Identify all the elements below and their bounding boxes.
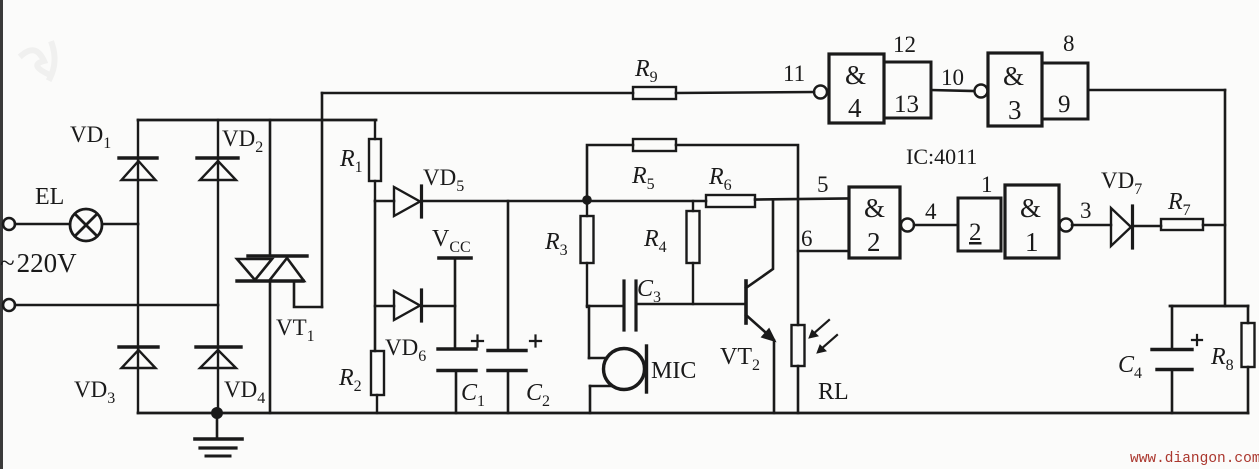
gate U1 (&1) xyxy=(1005,185,1073,258)
diode VD2 xyxy=(197,120,238,305)
resistor R5 xyxy=(633,139,676,151)
wire R5 branch left xyxy=(587,145,633,200)
pin box 13 xyxy=(884,62,931,118)
diode VD6 xyxy=(394,290,422,321)
svg-text:www.diangon.com: www.diangon.com xyxy=(1130,451,1259,467)
wire R6 to gate2 pin5 xyxy=(755,199,849,200)
svg-text:8: 8 xyxy=(1063,31,1075,56)
wire VD6 to Vcc rail xyxy=(422,305,455,308)
pin box 2 xyxy=(958,198,1001,251)
terminal lower xyxy=(3,299,15,311)
wire RL to bottom rail xyxy=(797,366,800,413)
node junction R3/R5 xyxy=(582,195,592,205)
wire pin 6 xyxy=(798,250,849,253)
resistor R3 xyxy=(581,201,594,307)
wire VD7 to R7 xyxy=(1134,225,1161,228)
ground xyxy=(195,413,242,456)
svg-text:10: 10 xyxy=(941,65,964,90)
gate U3 (&3) xyxy=(975,53,1043,126)
svg-text:13: 13 xyxy=(894,91,919,118)
diode VD4 xyxy=(196,305,241,413)
wire terminal to lamp xyxy=(15,223,70,226)
svg-text:&: & xyxy=(1003,61,1024,91)
wire pin 3 xyxy=(1072,224,1111,227)
svg-text:1: 1 xyxy=(981,172,993,197)
resistor R1 xyxy=(369,120,381,201)
svg-text:1: 1 xyxy=(1025,227,1039,257)
svg-text:2: 2 xyxy=(867,227,881,257)
svg-text:RL: RL xyxy=(818,379,849,405)
svg-text:2: 2 xyxy=(969,219,982,246)
wire R5 branch right xyxy=(676,145,798,325)
left vertical R1-VD6-R2 chain xyxy=(374,201,377,351)
wire lower terminal to bridge node B xyxy=(15,304,218,307)
capacitor C3 xyxy=(587,281,746,330)
capacitor C4 xyxy=(1152,306,1202,413)
wire R7 to right riser xyxy=(1203,224,1225,227)
diode VD7 xyxy=(1111,206,1133,248)
resistor R7 xyxy=(1161,219,1203,230)
diode VD1 xyxy=(119,120,157,224)
diode VD5 xyxy=(394,186,422,217)
wire top line gate riser to R9 xyxy=(322,92,633,95)
triac VT1 xyxy=(237,120,322,413)
bottom rail xyxy=(138,412,1248,415)
resistor R2 xyxy=(371,351,384,413)
svg-text:MIC: MIC xyxy=(651,358,696,384)
svg-text:4: 4 xyxy=(848,93,862,123)
wire R9 to gate4 pin11 xyxy=(676,92,814,93)
svg-text:&: & xyxy=(864,193,885,223)
diode VD3 xyxy=(119,224,158,413)
photoresistor RL xyxy=(792,320,838,366)
top DC rail xyxy=(138,119,376,122)
svg-text:9: 9 xyxy=(1058,91,1071,118)
gate U4 (&4) xyxy=(814,54,884,123)
svg-text:&: & xyxy=(845,60,866,90)
svg-text:11: 11 xyxy=(783,61,805,86)
wire lamp to bridge node A xyxy=(102,223,138,226)
wire main Vdd line VD5 to R6 xyxy=(423,200,706,203)
resistor R4 xyxy=(687,201,700,304)
capacitor C1 xyxy=(438,336,483,414)
svg-text:3: 3 xyxy=(1080,198,1092,223)
wire pin 4 xyxy=(914,224,958,227)
wire to VD5 xyxy=(375,200,394,203)
svg-text:5: 5 xyxy=(817,172,829,197)
pin box 9 xyxy=(1042,63,1088,119)
svg-text:~220V: ~220V xyxy=(0,248,77,278)
transistor VT2 xyxy=(746,201,775,413)
gate U2 (&2) xyxy=(849,187,914,258)
svg-text:12: 12 xyxy=(893,32,916,57)
wire triac gate riser xyxy=(321,93,324,307)
wire right riser xyxy=(1224,90,1227,306)
wire VD6 stub xyxy=(375,305,394,308)
svg-text:3: 3 xyxy=(1008,95,1022,125)
Vcc symbol xyxy=(439,258,471,347)
wire gate3 output to right xyxy=(1088,89,1225,92)
svg-text:4: 4 xyxy=(925,199,937,224)
svg-text:EL: EL xyxy=(35,184,64,210)
resistor R8 xyxy=(1242,306,1255,413)
wire RC network top xyxy=(1170,305,1248,308)
wire pin 10 xyxy=(931,90,974,91)
terminal upper xyxy=(3,218,15,230)
ground junction xyxy=(211,407,223,419)
svg-text:6: 6 xyxy=(801,226,813,251)
svg-text:&: & xyxy=(1020,193,1041,223)
lamp EL xyxy=(70,209,102,241)
capacitor C2 xyxy=(488,201,541,413)
resistor R9 xyxy=(633,87,676,99)
microphone MIC xyxy=(589,306,647,413)
resistor R6 xyxy=(706,195,755,207)
svg-text:IC:4011: IC:4011 xyxy=(906,144,977,169)
